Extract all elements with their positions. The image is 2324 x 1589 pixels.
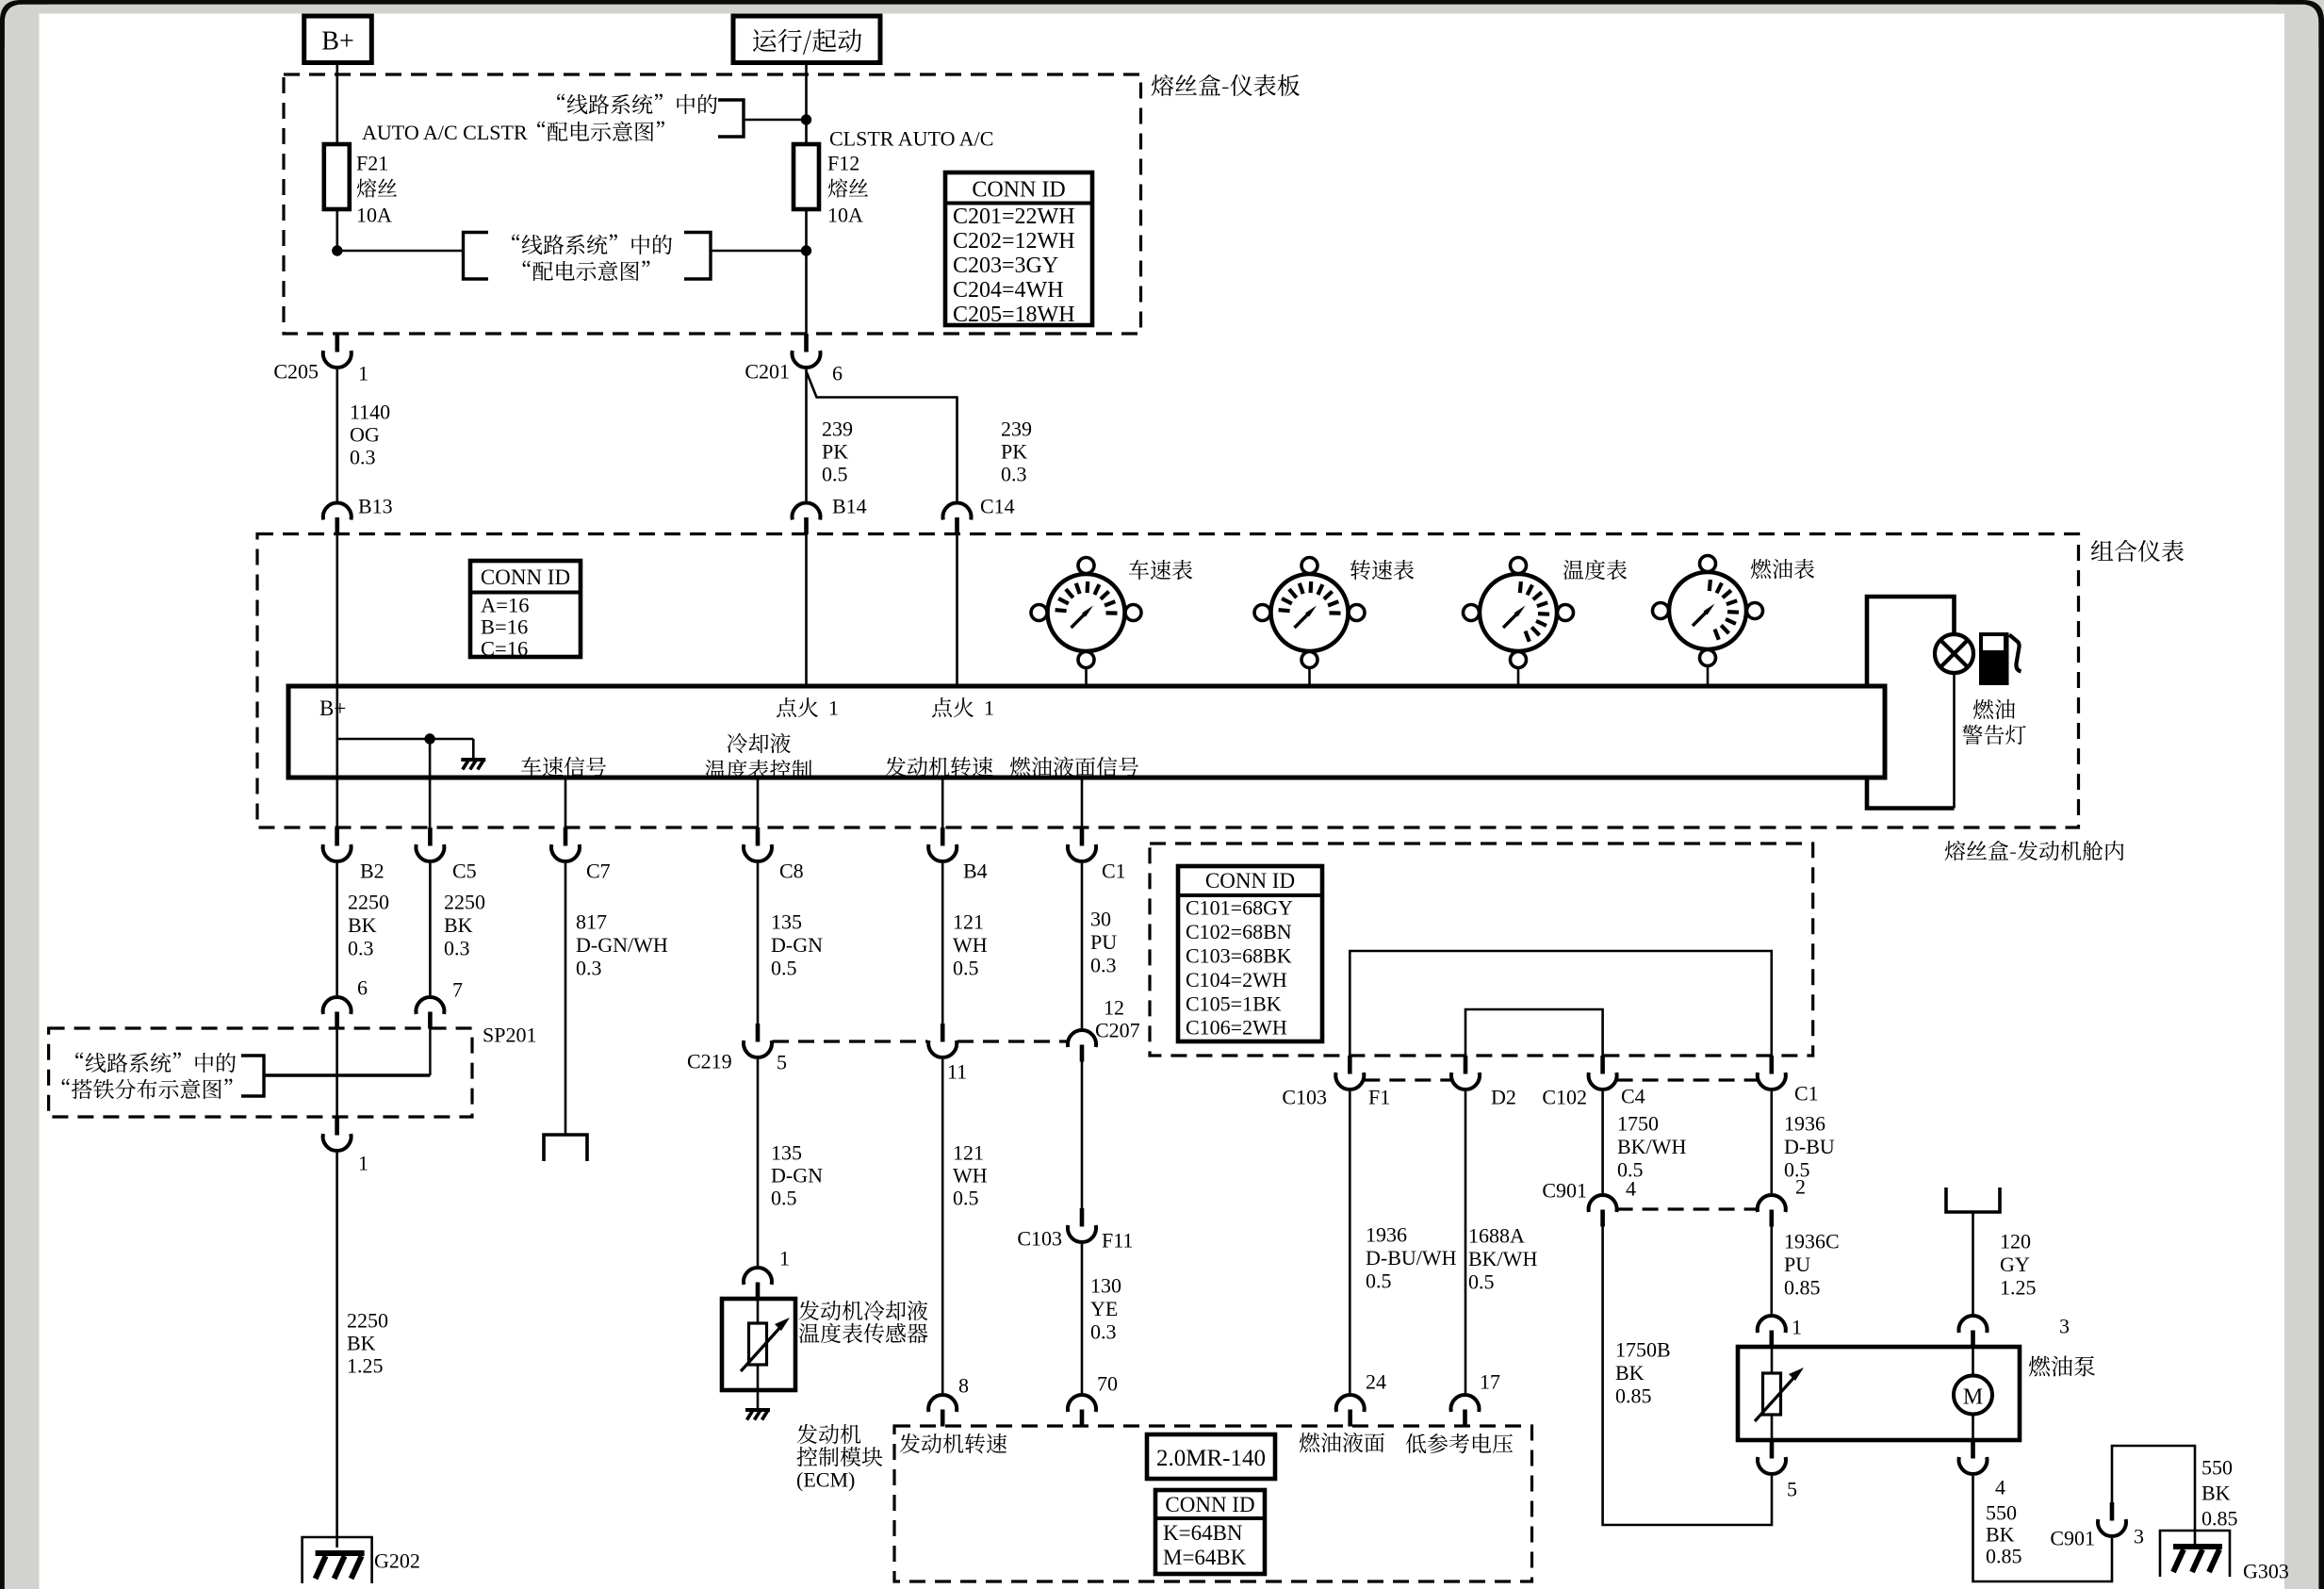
svg-text:1: 1 [828,696,839,720]
svg-text:1936C: 1936C [1784,1230,1840,1253]
svg-text:D-GN: D-GN [771,933,823,957]
svg-text:BK/WH: BK/WH [1617,1135,1686,1158]
wire B+ into bar [336,686,338,739]
svg-text:0.3: 0.3 [444,937,470,960]
svg-text:C205: C205 [273,360,319,384]
connector fuel pump pin 3 [1959,1316,1988,1347]
note 线路系统 中的 (upper) [557,94,717,115]
svg-text:C=16: C=16 [481,636,528,660]
wire 2250 BK 1.25 [336,1153,338,1548]
pump motor wire top [1972,1347,1974,1376]
instrument cluster box (dashed) [257,534,2079,828]
connector fuel pump pin 5 [1758,1440,1786,1474]
wire 1140 OG [336,369,338,501]
unused-connector symbol (C7 end) [544,1135,587,1161]
label 警告灯 [1962,725,2025,745]
svg-text:1750: 1750 [1617,1112,1659,1136]
fuse F21 [324,144,350,209]
svg-text:30: 30 [1090,908,1111,931]
wire 817 D-GN/WH (C7) [565,863,567,1135]
label 发动机 (ECM) [797,1424,861,1444]
svg-text:BK: BK [347,1332,376,1355]
svg-text:5: 5 [1787,1478,1797,1501]
label 冷却液 [728,733,791,753]
svg-text:C104=2WH: C104=2WH [1186,968,1287,991]
label 燃油液面信号 [1010,757,1138,777]
svg-text:1: 1 [1792,1316,1802,1339]
connector ECM pin 8 [928,1395,957,1426]
svg-text:G303: G303 [2243,1560,2289,1583]
wire B+ internal horizontal [337,738,474,741]
svg-text:0.3: 0.3 [350,446,376,469]
svg-text:120: 120 [2000,1230,2031,1253]
svg-text:121: 121 [953,1141,984,1165]
dashed connector line C207 [957,1040,1067,1042]
fuse F12 [794,144,819,209]
sensor arrow [741,1318,790,1371]
fuse box internal wire (C4 to D2) [1465,1009,1603,1056]
fuse box - engine compartment (dashed) [1150,844,1813,1056]
svg-text:135: 135 [771,910,802,934]
CONN ID table (fuse box IP) [945,172,1092,325]
svg-text:1.25: 1.25 [347,1354,384,1378]
wire B+ to fuse F21 [336,63,338,145]
svg-text:0.5: 0.5 [771,957,797,980]
wire 1936 D-BU [1771,1091,1774,1193]
splice pack SP201 (dashed) [49,1028,472,1117]
label 燃油泵 [2029,1356,2095,1377]
svg-text:135: 135 [771,1141,802,1165]
svg-text:C219: C219 [687,1050,732,1073]
bracket (upper note) [718,100,744,137]
svg-text:BK: BK [444,913,473,937]
junction dot on F12 wire (lower) [801,245,811,255]
svg-text:1750B: 1750B [1615,1338,1671,1362]
svg-text:1936: 1936 [1784,1112,1825,1136]
connector B13 [323,503,352,534]
wire 1936C PU [1771,1226,1774,1314]
connector C901 pin 4 [1589,1195,1617,1226]
node 运行/起动 (run/start feed box) [733,16,880,63]
svg-text:D-GN: D-GN [771,1164,823,1188]
svg-text:C204=4WH: C204=4WH [953,278,1064,303]
svg-text:CONN ID: CONN ID [972,177,1065,202]
svg-text:0.85: 0.85 [2201,1507,2238,1531]
svg-text:0.5: 0.5 [822,463,848,486]
svg-text:4: 4 [1995,1476,2005,1499]
node B+ (battery feed box) [304,16,372,63]
svg-text:0.3: 0.3 [576,957,602,980]
engine coolant temp sensor box [722,1299,795,1390]
wire bar to C7 [565,778,567,827]
label 熔丝盒-仪表板 [1152,74,1300,96]
wire 1750 BK/WH [1601,1091,1604,1193]
svg-text:2.0MR-140: 2.0MR-140 [1156,1446,1266,1471]
svg-text:70: 70 [1097,1372,1118,1396]
connector C8 (cluster bottom) [744,827,772,861]
connector C103 pin F11 [1068,1208,1096,1242]
svg-text:17: 17 [1480,1370,1500,1394]
svg-text:0.5: 0.5 [953,957,979,980]
label 温度表控制 [705,760,811,780]
wire C901 pin3 to G303 [2112,1446,2195,1545]
svg-text:C901: C901 [2050,1527,2095,1550]
svg-text:817: 817 [576,910,607,934]
svg-text:6: 6 [832,362,843,385]
wire F21 to junction [336,209,338,251]
svg-text:B2: B2 [360,860,385,883]
wire B14 to cluster bar (ignition 1) [805,534,808,687]
ground (temp sensor) [745,1410,770,1420]
svg-text:B4: B4 [963,860,988,883]
svg-text:OG: OG [350,423,380,447]
fuel sender internal wire [1771,1347,1774,1440]
svg-text:C105=1BK: C105=1BK [1186,991,1282,1015]
CONN ID table (ECM) [1155,1490,1265,1574]
svg-text:CONN ID: CONN ID [481,565,570,589]
wire C14 to cluster bar (ignition 1) [956,534,958,687]
svg-text:8: 8 [958,1374,969,1398]
svg-text:C1: C1 [1102,860,1126,883]
ground G202 [303,1537,372,1583]
wire 121 WH upper (B4) [941,863,944,1024]
note 搭铁分布示意图 [62,1079,233,1099]
dashed connector line (C4-C1) [1617,1078,1758,1081]
svg-text:0.85: 0.85 [1784,1276,1821,1300]
connector ECM pin 17 [1450,1395,1479,1426]
svg-text:10A: 10A [356,204,392,227]
black frame top-right rounded corner [2277,0,2324,47]
wire 130 YE [1081,1244,1084,1393]
dashed connector line C219 [773,1040,927,1042]
label 熔丝 (F12) [828,178,869,197]
svg-text:PU: PU [1784,1253,1810,1276]
wire 运行/起动 to fuse F12 [805,63,808,145]
connector fuel pump pin 4 [1959,1440,1988,1474]
svg-text:D-BU: D-BU [1784,1135,1835,1158]
svg-text:(ECM): (ECM) [796,1468,855,1492]
svg-text:C103: C103 [1282,1086,1327,1109]
wire 1688A BK/WH [1465,1091,1467,1393]
connector SP201 pin 6 [323,997,352,1028]
svg-text:C103=68BK: C103=68BK [1186,944,1292,968]
dashed connector line (C901 4-2) [1617,1207,1758,1210]
svg-text:121: 121 [953,910,984,934]
ECM box (dashed) [894,1426,1532,1581]
svg-text:BK/WH: BK/WH [1468,1247,1537,1270]
svg-text:C201=22WH: C201=22WH [953,205,1075,229]
svg-text:130: 130 [1090,1274,1121,1298]
svg-text:AUTO A/C CLSTR: AUTO A/C CLSTR [362,121,528,144]
gauge 燃油表 (fuel gauge) [1653,556,1763,666]
svg-text:11: 11 [947,1060,967,1084]
svg-text:1688A: 1688A [1468,1224,1525,1248]
svg-text:1: 1 [779,1247,790,1270]
wire 2250 BK 0.3 (C5) [429,863,432,995]
connector pin 11 [928,1024,957,1057]
connector C5 (cluster bottom) [416,827,444,861]
svg-text:12: 12 [1104,996,1124,1020]
ground G303 [2160,1531,2230,1577]
svg-text:C207: C207 [1095,1019,1140,1042]
svg-text:B+: B+ [319,696,346,720]
fuel pump box [1738,1347,2020,1440]
label 燃油 (warning lamp) [1973,699,2015,719]
svg-text:C7: C7 [586,860,611,883]
connector C103 pin F1 [1335,1056,1364,1089]
wire B13 to cluster bar [336,534,338,740]
svg-text:0.85: 0.85 [1615,1384,1652,1408]
svg-text:C102=68BN: C102=68BN [1186,920,1292,943]
svg-text:F12: F12 [827,152,859,175]
wire pump pin4 to C901 pin3 [1973,1476,2113,1581]
svg-text:0.5: 0.5 [1468,1270,1495,1294]
connector C7 (cluster bottom) [551,827,580,861]
connector B4 (cluster bottom) [928,827,957,861]
wire B+ down to B2 [336,739,338,827]
svg-text:10A: 10A [827,204,863,227]
wire 2250 BK 0.3 (B2) [336,863,338,995]
svg-text:3: 3 [2134,1525,2144,1548]
connector C14 [942,503,971,534]
svg-text:24: 24 [1366,1370,1386,1394]
CONN ID table (engine fuse box) [1178,866,1322,1041]
svg-text:2250: 2250 [347,1309,388,1333]
svg-text:0.3: 0.3 [1090,954,1117,977]
svg-text:550: 550 [2201,1456,2233,1480]
svg-text:0.5: 0.5 [953,1187,979,1210]
connector C201 pin 6 [792,334,820,368]
label 低参考电压 [1406,1433,1513,1453]
svg-text:C106=2WH: C106=2WH [1186,1016,1287,1040]
wire 239 PK 0.5 (B14 branch) [805,369,808,501]
svg-text:D-GN/WH: D-GN/WH [576,933,668,957]
gauge 温度表 (temperature gauge) [1464,558,1574,668]
wire fuel gauge to bar [1707,666,1710,687]
feed symbol (120 GY) [1946,1188,2000,1212]
black frame top-left rounded corner [0,0,47,47]
svg-text:2250: 2250 [444,891,485,914]
svg-text:F21: F21 [356,152,388,175]
svg-text:0.5: 0.5 [771,1187,797,1210]
svg-text:WH: WH [953,1164,988,1188]
motor M [1954,1376,1992,1415]
connector sensor pin 1 [744,1268,772,1299]
svg-text:C901: C901 [1542,1179,1587,1203]
CONN ID table (cluster) [470,561,581,657]
svg-text:BK: BK [348,913,377,937]
svg-text:M=64BK: M=64BK [1163,1546,1247,1569]
connector C207 pin 12 [1068,1030,1096,1061]
svg-text:C201: C201 [745,360,790,384]
connector C1 (engine box) [1758,1056,1786,1089]
svg-text:K=64BN: K=64BN [1163,1521,1243,1545]
svg-text:1140: 1140 [350,401,390,424]
wire tachometer to bar [1308,668,1311,687]
svg-text:D2: D2 [1491,1086,1516,1109]
svg-text:B13: B13 [358,495,393,518]
svg-text:239: 239 [822,418,853,441]
black frame left band [0,19,5,1589]
connector C1 (cluster bottom) [1068,827,1096,861]
connector C901 pin 3 [2098,1502,2126,1536]
svg-text:1: 1 [358,362,368,385]
svg-text:C1: C1 [1794,1082,1819,1106]
wire speedometer to bar [1085,668,1088,687]
label 发动机转速 (ECM) [900,1433,1007,1453]
label 发动机冷却液 [799,1301,928,1320]
connector SP201 pin 1 [323,1117,352,1151]
cluster right block (tall rectangle) [1867,597,1955,809]
2.0MR-140 box [1147,1434,1275,1479]
svg-text:WH: WH [953,933,988,957]
black frame top band [19,0,2303,5]
svg-text:C4: C4 [1621,1085,1645,1108]
svg-text:C205=18WH: C205=18WH [953,303,1075,327]
label 熔丝 (F21) [357,178,398,197]
wire 239 PK 0.3 (C14 branch) [807,371,957,501]
sensor internal wire [757,1299,760,1390]
label 控制模块 [797,1447,883,1466]
wire 1936 D-BU/WH [1349,1091,1351,1393]
gauge 转速表 (tachometer) [1254,558,1365,668]
wire 1750B BK 0.85 [1603,1226,1772,1525]
svg-text:7: 7 [452,978,463,1002]
svg-text:GY: GY [2000,1253,2030,1276]
wire F21 junction to left bracket [337,250,464,253]
connector ECM pin 70 [1068,1395,1096,1426]
junction dot on F12 wire [801,114,811,124]
label 熔丝盒-发动机舱内 [1945,841,2124,860]
svg-text:B14: B14 [832,495,867,518]
svg-text:BK: BK [1986,1523,2015,1547]
label 车速信号 [521,757,606,777]
wire F12 down [805,209,808,334]
svg-text:C5: C5 [452,860,477,883]
note 线路系统 中的 (SP201) [75,1053,236,1073]
svg-text:4: 4 [1626,1177,1636,1201]
wire bracket to F12 wire [744,119,807,122]
svg-text:YE: YE [1090,1297,1118,1320]
wire pin6 through SP201 [336,1028,338,1117]
sensor ground wire [757,1390,760,1410]
connector B2 (cluster bottom) [323,827,352,861]
svg-text:CLSTR AUTO A/C: CLSTR AUTO A/C [829,127,993,151]
wire bar to C1 [1081,778,1084,827]
wire 135 D-GN upper (C8) [757,863,760,1024]
bracket (lower note, right) [684,233,711,280]
pump motor wire bottom [1972,1415,1974,1441]
wire junction down to C5 [429,739,432,827]
svg-text:6: 6 [357,976,368,1000]
svg-text:1: 1 [984,696,994,720]
svg-text:5: 5 [777,1051,787,1074]
connector B14 [792,503,820,534]
wire to internal ground [472,739,475,760]
note 配电示意图 (upper) [537,122,664,141]
svg-text:B+: B+ [321,26,353,56]
splice bus wire (SP201) [264,1073,430,1077]
svg-text:0.5: 0.5 [1366,1270,1392,1293]
svg-text:1936: 1936 [1366,1223,1407,1247]
wire 121 WH lower [941,1059,944,1393]
svg-text:2250: 2250 [348,891,389,914]
label 温度表 [1563,560,1627,581]
note 线路系统 中的 (lower) [512,235,672,255]
fuel sender variable resistor [1763,1373,1781,1415]
wire pin7 to splice bus [429,1028,431,1075]
connector pin D2 [1451,1056,1480,1089]
label 点火 1 (left) [777,697,818,717]
label 燃油表 [1751,559,1814,579]
svg-text:0.3: 0.3 [1001,463,1027,486]
svg-text:C203=3GY: C203=3GY [953,254,1058,278]
connector C205 pin 1 [323,334,352,368]
svg-text:550: 550 [1986,1501,2017,1525]
svg-text:PK: PK [822,440,848,464]
svg-text:PK: PK [1001,440,1027,464]
fuse box internal wire (C1 to F1) [1350,951,1772,1056]
cluster internal bar [288,686,1885,778]
wire right bracket to F12 wire [711,250,807,253]
svg-text:0.3: 0.3 [1090,1320,1117,1344]
bracket (SP201 note) [241,1056,264,1096]
junction dot (internal B+) [424,733,434,744]
svg-text:BK: BK [2201,1482,2231,1505]
fuel pump icon [1979,632,2021,685]
svg-text:CONN ID: CONN ID [1165,1493,1254,1516]
svg-text:A=16: A=16 [481,593,529,616]
fuel sender arrow [1755,1368,1804,1421]
wire bar to C8 [757,778,760,827]
wire 135 D-GN lower [757,1059,760,1266]
wire temperature gauge to bar [1517,668,1520,687]
label 转速表 [1350,560,1414,580]
wire 30 PU (C1) [1081,863,1084,1028]
junction dot on F21 wire [332,245,342,255]
wire 30 PU to C103 [1081,1061,1084,1208]
svg-text:C14: C14 [980,495,1015,518]
gauge 车速表 (speedometer) [1031,558,1141,668]
label 燃油液面 [1300,1433,1384,1452]
svg-text:2: 2 [1795,1175,1806,1199]
connector ECM pin 24 [1336,1395,1365,1426]
wire bar to B4 [941,778,944,827]
svg-text:SP201: SP201 [483,1024,536,1047]
connector C901 pin 2 [1758,1195,1786,1226]
svg-text:0.3: 0.3 [348,937,374,960]
svg-text:C103: C103 [1017,1227,1062,1251]
bracket (lower note, left) [464,233,489,280]
svg-text:D-BU/WH: D-BU/WH [1366,1246,1457,1270]
label 车速表 [1129,560,1192,580]
svg-text:0.85: 0.85 [1986,1545,2022,1568]
svg-text:G202: G202 [374,1549,420,1573]
label 发动机转速 (bar) [886,757,993,777]
svg-text:1: 1 [358,1152,368,1175]
note 配电示意图 (lower) [523,261,650,281]
label 点火 1 (right) [932,697,974,717]
connector fuel pump pin 1 [1758,1316,1786,1347]
svg-text:PU: PU [1090,930,1117,954]
dashed connector line (F1-D2) [1364,1078,1451,1081]
svg-text:CONN ID: CONN ID [1205,869,1295,893]
svg-text:C101=68GY: C101=68GY [1186,896,1293,920]
fuse box - instrument panel (dashed) [284,74,1141,334]
connector C219 pin 5 [744,1024,772,1057]
fuel warning lamp [1935,634,1973,673]
label 组合仪表 [2091,540,2184,562]
